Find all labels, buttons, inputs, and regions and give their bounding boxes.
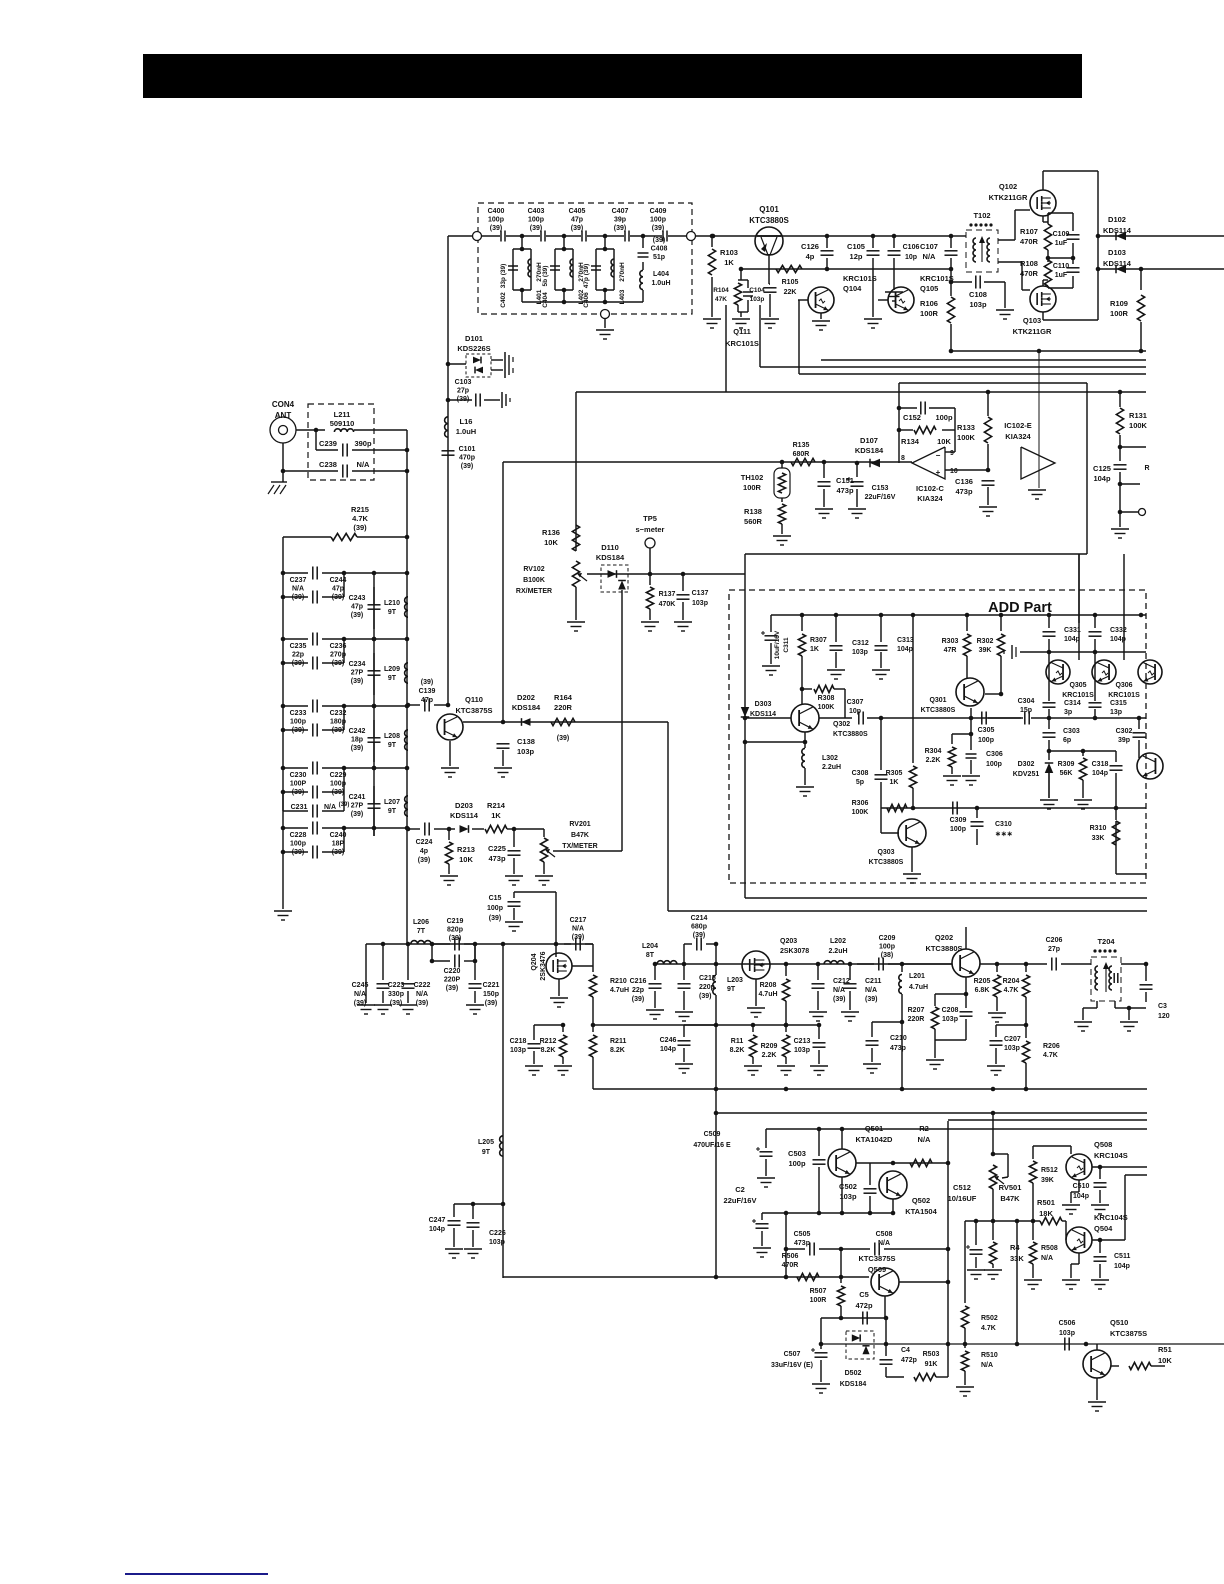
svg-text:C136: C136 <box>955 477 973 486</box>
svg-text:8.2K: 8.2K <box>610 1047 625 1054</box>
svg-text:473p: 473p <box>890 1045 906 1052</box>
capacitor C208 <box>935 994 973 1058</box>
resistor R308 <box>802 685 845 718</box>
capacitor C239 <box>316 444 407 457</box>
wire Q102 bot <box>1043 216 1048 222</box>
svg-text:C244: C244 <box>330 577 347 584</box>
capacitor C243 <box>368 573 381 609</box>
node C230 right <box>342 766 347 771</box>
svg-text:2.2uH: 2.2uH <box>828 948 847 955</box>
wire Q204 src <box>558 979 560 996</box>
svg-text:C126: C126 <box>801 242 819 251</box>
node bus 894 <box>892 234 897 239</box>
svg-text:C236: C236 <box>330 643 347 650</box>
label C244 <box>330 577 347 601</box>
wire row1318 <box>821 1317 886 1319</box>
node L302 top <box>803 740 808 745</box>
svg-text:10p: 10p <box>905 254 917 261</box>
ground Q110 <box>441 768 459 777</box>
svg-text:R211: R211 <box>610 1038 626 1045</box>
label R512 <box>1041 1167 1058 1184</box>
wire meter row <box>587 573 745 575</box>
wire row1025 <box>593 1024 821 1026</box>
svg-text:100K: 100K <box>1129 421 1148 430</box>
svg-text:T102: T102 <box>973 211 990 220</box>
svg-text:C108: C108 <box>969 290 987 299</box>
label C314 <box>1064 700 1081 716</box>
capacitor C213 <box>813 1025 826 1064</box>
node D101 <box>446 362 451 367</box>
label C206 <box>1046 937 1063 953</box>
svg-text:C318: C318 <box>1092 761 1109 768</box>
capacitor C244 <box>283 591 344 604</box>
svg-text:10/16UF: 10/16UF <box>948 1194 977 1203</box>
wire Q501 out <box>856 1162 948 1164</box>
svg-text:Q509: Q509 <box>868 1265 886 1274</box>
svg-text:KRC101S: KRC101S <box>920 274 954 283</box>
node row1213 d <box>868 1211 873 1216</box>
label C309 <box>950 817 967 833</box>
svg-text:C109: C109 <box>1053 231 1070 238</box>
svg-text:C409: C409 <box>650 208 667 215</box>
svg-text:L211: L211 <box>334 410 351 419</box>
node addbus 1095 <box>1093 613 1098 618</box>
svg-text:C245: C245 <box>352 982 369 989</box>
node C214 l <box>682 962 687 967</box>
svg-text:KTA1504: KTA1504 <box>905 1207 937 1216</box>
ground R213 <box>440 876 458 885</box>
inductor L202 <box>824 961 844 964</box>
svg-text:103p: 103p <box>794 1047 810 1054</box>
svg-text:(39): (39) <box>332 660 344 667</box>
wire rail mix down <box>502 944 504 1278</box>
capacitor C216 <box>649 964 662 1008</box>
wire T204 g1 <box>1083 1001 1097 1020</box>
label L202 <box>828 938 847 955</box>
capacitor C304 <box>988 712 1146 725</box>
wire Q301 col <box>970 708 972 734</box>
node C508 r <box>946 1247 951 1252</box>
label RV501 <box>999 1183 1022 1203</box>
svg-text:C211: C211 <box>865 978 881 985</box>
ground C108 <box>996 310 1014 319</box>
label R104 <box>713 287 729 303</box>
wire fb h370 <box>821 359 1146 361</box>
label R305 <box>886 770 903 786</box>
svg-text:330p: 330p <box>388 991 404 998</box>
svg-text:100p: 100p <box>978 737 994 744</box>
svg-text:R4: R4 <box>1010 1243 1020 1252</box>
label C306 <box>986 751 1003 768</box>
svg-text:100p: 100p <box>879 944 895 951</box>
svg-text:KTC3880S: KTC3880S <box>749 216 789 225</box>
transistor Q301 <box>956 678 984 706</box>
label C4 <box>901 1347 917 1364</box>
ground rail-L <box>274 911 292 920</box>
svg-text:KDS184: KDS184 <box>855 446 884 455</box>
label R510 <box>981 1352 998 1369</box>
transistor Q105 <box>888 287 914 313</box>
capacitor C312 <box>830 615 843 668</box>
capacitor C308 <box>875 718 888 808</box>
label C238 <box>319 460 337 469</box>
label C207 <box>1004 1036 1021 1052</box>
label L16 <box>456 417 476 436</box>
inductor L210 <box>405 597 408 617</box>
svg-text:18P: 18P <box>332 841 345 848</box>
svg-text:C229: C229 <box>330 772 347 779</box>
svg-text:56K: 56K <box>1060 770 1073 777</box>
ground C2 <box>753 1248 771 1257</box>
svg-text:KDS226S: KDS226S <box>457 344 490 353</box>
svg-text:B100K: B100K <box>523 577 545 584</box>
svg-text:C107: C107 <box>920 242 938 251</box>
capacitor C225 <box>508 829 521 874</box>
transistor Q510 <box>1083 1344 1111 1378</box>
label C508 <box>876 1231 893 1247</box>
diode D110 <box>601 565 628 593</box>
capacitor C402 <box>508 266 518 270</box>
svg-text:L210: L210 <box>384 600 400 607</box>
ground R104 <box>732 319 750 328</box>
svg-text:KIA324: KIA324 <box>917 494 943 503</box>
node Q204 gate <box>554 942 559 947</box>
svg-text:8T: 8T <box>646 952 655 959</box>
svg-text:(39): (39) <box>351 811 363 818</box>
thermistor TH102 <box>774 462 790 500</box>
node pin4 <box>1037 349 1042 354</box>
svg-text:D102: D102 <box>1108 215 1126 224</box>
node C406 top <box>603 247 608 252</box>
label R138 <box>744 507 763 526</box>
svg-text:∗∗∗: ∗∗∗ <box>995 831 1013 838</box>
svg-text:8: 8 <box>901 455 905 462</box>
label R103 <box>720 248 738 267</box>
svg-text:T204: T204 <box>1097 937 1115 946</box>
capacitor C507 <box>811 1344 828 1382</box>
svg-text:D110: D110 <box>601 543 619 552</box>
label C101 <box>459 446 476 470</box>
ground C213 <box>810 1066 828 1075</box>
label C230 <box>290 772 307 796</box>
svg-text:Q510: Q510 <box>1110 1318 1128 1327</box>
ground R103 <box>703 319 721 328</box>
svg-text:R208: R208 <box>760 982 777 989</box>
node R212 top <box>561 1023 566 1028</box>
svg-text:C233: C233 <box>290 710 307 717</box>
ground R4 <box>984 1270 1002 1279</box>
ground Q510 <box>1088 1402 1106 1411</box>
node L203 964 <box>714 962 719 967</box>
label C2 <box>724 1185 757 1205</box>
svg-text:C152: C152 <box>903 413 921 422</box>
node C233 right <box>342 704 347 709</box>
wire opamp plus <box>945 469 988 471</box>
ground C105 <box>864 319 882 328</box>
diode D203 <box>449 825 482 833</box>
wire fb v2 <box>759 305 761 367</box>
transistor Q102 <box>1030 190 1056 216</box>
svg-text:Q102: Q102 <box>999 182 1017 191</box>
node C235 left <box>281 637 286 642</box>
svg-text:L204: L204 <box>642 943 658 950</box>
capacitor C101 <box>442 451 455 455</box>
svg-text:100p: 100p <box>290 719 306 726</box>
svg-text:Q111: Q111 <box>733 327 751 336</box>
label D103 <box>1103 248 1132 268</box>
label L402 <box>578 289 585 304</box>
svg-text:Q202: Q202 <box>935 933 953 942</box>
label T102 dots <box>969 223 992 226</box>
svg-text:9T: 9T <box>727 986 736 993</box>
svg-text:18K: 18K <box>1039 1209 1053 1218</box>
capacitor C508 <box>841 1243 948 1256</box>
node C511 top <box>1098 1238 1103 1243</box>
svg-text:C209: C209 <box>879 935 896 942</box>
svg-text:R104: R104 <box>713 287 729 294</box>
svg-text:270p: 270p <box>330 652 346 659</box>
ground RV201 <box>535 876 553 885</box>
wire bus1221 <box>965 1220 1040 1222</box>
node L204 in <box>653 962 658 967</box>
svg-text:KRC101S: KRC101S <box>1062 692 1094 699</box>
wire Q508 out <box>1092 1166 1147 1168</box>
svg-text:Q104: Q104 <box>843 284 862 293</box>
svg-text:TX/METER: TX/METER <box>562 843 597 850</box>
label R508 <box>1041 1245 1058 1262</box>
svg-text:C219: C219 <box>447 918 464 925</box>
svg-text:470R: 470R <box>1020 237 1039 246</box>
svg-text:C221: C221 <box>483 982 500 989</box>
resistor R503 <box>886 1121 948 1381</box>
capacitor C138 <box>497 744 510 766</box>
svg-text:22K: 22K <box>784 289 797 296</box>
label C236 <box>330 643 347 667</box>
svg-text:8.2K: 8.2K <box>730 1047 745 1054</box>
wire y462 main <box>576 461 912 463</box>
label D203 <box>450 801 479 820</box>
svg-text:R209: R209 <box>761 1043 778 1050</box>
resistor R103 <box>708 236 715 317</box>
wire bus Q101 <box>696 235 951 237</box>
inductor L402 <box>570 259 573 277</box>
wire C241 top <box>373 768 375 836</box>
diode D102 <box>1098 232 1224 241</box>
label C103 <box>455 379 472 403</box>
svg-text:680R: 680R <box>793 451 810 458</box>
label R310 <box>1090 825 1107 842</box>
svg-text:IC102-C: IC102-C <box>916 484 945 493</box>
label C219 <box>447 918 464 942</box>
transistor Q509 <box>871 1268 899 1296</box>
svg-text:100K: 100K <box>852 809 869 816</box>
label IC102-E <box>1004 421 1032 441</box>
terminal in <box>473 232 482 241</box>
svg-text:Q103: Q103 <box>1023 316 1041 325</box>
inductor L401 <box>528 259 531 277</box>
svg-text:C216: C216 <box>630 978 647 985</box>
svg-text:104p: 104p <box>660 1046 676 1053</box>
svg-text:100R: 100R <box>920 309 939 318</box>
diode D202 <box>522 718 531 726</box>
svg-text:4.7K: 4.7K <box>352 514 368 523</box>
svg-text:KRC104S: KRC104S <box>1094 1151 1128 1160</box>
svg-text:27p: 27p <box>457 388 469 395</box>
svg-text:KDS114: KDS114 <box>1103 259 1132 268</box>
node C219 in <box>430 942 435 947</box>
label D110 <box>596 543 625 562</box>
svg-text:(39): (39) <box>292 660 304 667</box>
label C137 <box>692 590 709 607</box>
node C214 r <box>714 942 719 947</box>
ground C225 <box>505 876 523 885</box>
capacitor C136 <box>982 481 995 505</box>
ground RV102 <box>567 622 585 631</box>
label 39 C231 <box>339 802 350 808</box>
wire C242 col <box>373 720 375 762</box>
capacitor C222 <box>402 944 415 1003</box>
wire C243 top <box>373 573 375 639</box>
wire R164 row <box>463 721 668 723</box>
svg-text:(39): (39) <box>446 985 458 992</box>
capacitor C235 <box>283 633 344 646</box>
label C212 <box>833 978 850 1003</box>
svg-text:R510: R510 <box>981 1352 998 1359</box>
node RV501 x <box>991 1111 996 1116</box>
svg-text:5b (39): 5b (39) <box>542 266 549 287</box>
svg-text:C310: C310 <box>995 821 1012 828</box>
svg-text:R: R <box>1144 465 1149 472</box>
svg-text:C106: C106 <box>903 244 920 251</box>
capacitor D101 bypass <box>491 352 513 378</box>
node R507 top <box>839 1275 844 1280</box>
wire Q301 out <box>985 693 1001 695</box>
svg-text:R204: R204 <box>1003 978 1020 985</box>
svg-text:6p: 6p <box>1063 737 1071 744</box>
label 390p <box>354 439 372 448</box>
svg-text:103p: 103p <box>1059 1330 1075 1337</box>
svg-text:(39): (39) <box>418 857 430 864</box>
svg-text:D303: D303 <box>755 701 772 708</box>
node C234 top <box>372 637 377 642</box>
node C406 bot <box>603 288 608 293</box>
capacitor C206 <box>1021 958 1091 971</box>
wire T102 sec <box>998 210 1030 240</box>
wire C245 col <box>365 944 367 1003</box>
svg-text:C210: C210 <box>890 1035 907 1042</box>
svg-text:R305: R305 <box>886 770 903 777</box>
label C242 <box>349 728 366 752</box>
label RV102 <box>516 566 552 595</box>
node C510 top <box>1098 1165 1103 1170</box>
svg-text:470p: 470p <box>459 455 475 462</box>
svg-text:470R: 470R <box>782 1262 799 1269</box>
node addbus 913 <box>911 613 916 618</box>
wire row1213 <box>786 1212 893 1214</box>
label N/A C231 <box>324 804 336 811</box>
svg-text:C237: C237 <box>290 577 307 584</box>
svg-text:C206: C206 <box>1046 937 1063 944</box>
node TP5 <box>648 572 653 577</box>
label C110 <box>1053 263 1069 279</box>
capacitor C209 <box>857 958 952 971</box>
label C217 <box>570 917 587 941</box>
svg-text:R205: R205 <box>974 978 991 985</box>
transistor Q308 partial <box>1137 751 1163 779</box>
node term 512 <box>1118 510 1123 515</box>
label R137 <box>659 591 676 608</box>
svg-text:C246: C246 <box>660 1037 677 1044</box>
capacitor C318 <box>1110 751 1123 820</box>
svg-text:C308: C308 <box>852 770 869 777</box>
svg-text:CON4: CON4 <box>272 400 295 409</box>
svg-text:33p (39): 33p (39) <box>500 264 507 289</box>
terminal gnd filter <box>601 310 610 329</box>
resistor R134 <box>899 426 936 433</box>
svg-text:C2: C2 <box>735 1185 745 1194</box>
svg-text:R131: R131 <box>1129 411 1147 420</box>
svg-text:39K: 39K <box>1041 1177 1054 1184</box>
label R106 <box>920 299 939 318</box>
svg-text:KDS184: KDS184 <box>596 553 625 562</box>
svg-text:2SK3476: 2SK3476 <box>540 951 547 980</box>
label C311 <box>774 630 781 659</box>
node cell bus <box>603 300 608 305</box>
capacitor C314 <box>1043 698 1056 718</box>
capacitor C210 <box>866 1022 903 1062</box>
label C109 <box>1053 231 1070 247</box>
node D103 in <box>1096 267 1101 272</box>
svg-text:C231: C231 <box>291 804 308 811</box>
node L206 in <box>406 942 411 947</box>
svg-text:47p: 47p <box>421 697 433 704</box>
svg-text:N/A: N/A <box>833 987 845 994</box>
label C107 <box>920 242 938 261</box>
svg-text:TH102: TH102 <box>741 473 764 482</box>
svg-text:R308: R308 <box>818 695 835 702</box>
svg-text:N/A: N/A <box>357 460 371 469</box>
svg-text:KDS184: KDS184 <box>840 1381 867 1388</box>
svg-text:R512: R512 <box>1041 1167 1058 1174</box>
capacitor C408 <box>638 236 649 257</box>
svg-text:C234: C234 <box>349 661 366 668</box>
capacitor C309 <box>913 802 957 815</box>
svg-text:C508: C508 <box>876 1231 893 1238</box>
capacitor C215 <box>678 964 691 1010</box>
node C139 rail <box>406 703 411 708</box>
inductor L205 <box>500 1136 503 1156</box>
svg-text:N/A: N/A <box>1041 1255 1053 1262</box>
label D101 <box>457 334 490 353</box>
wire C243 v <box>373 577 375 637</box>
node C237 left <box>281 571 286 576</box>
label R503 <box>923 1351 940 1368</box>
svg-text:103p: 103p <box>1004 1045 1020 1052</box>
wire CON4 down <box>282 443 284 482</box>
node C236 left <box>281 661 286 666</box>
capacitor Q101e <box>764 288 777 317</box>
svg-text:4.7K: 4.7K <box>1004 987 1019 994</box>
ground C509 <box>757 1178 775 1187</box>
resistor R310 <box>1112 821 1146 874</box>
wire 786 drop <box>785 1213 787 1277</box>
node C512 top <box>974 1219 979 1224</box>
svg-text:R213: R213 <box>457 845 475 854</box>
label C240 <box>330 832 347 856</box>
svg-text:C314: C314 <box>1064 700 1081 707</box>
wire C505 drop <box>840 1249 842 1277</box>
node C247 row <box>501 1202 506 1207</box>
